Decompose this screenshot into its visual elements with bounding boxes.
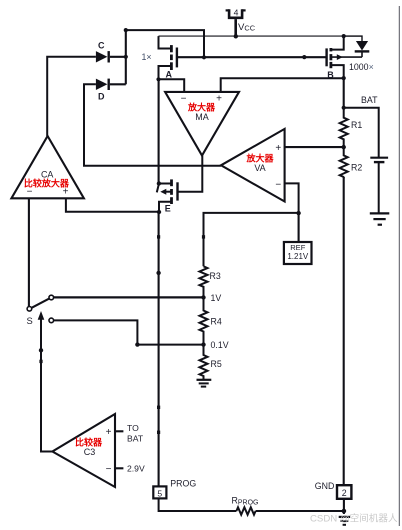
node: E drain dot xyxy=(157,181,161,185)
svg-text:−: − xyxy=(275,180,281,191)
svg-text:E: E xyxy=(165,203,171,213)
node: dot on actuator line xyxy=(39,348,43,352)
svg-text:1.21V: 1.21V xyxy=(287,252,309,261)
tick on PROG line mid xyxy=(157,406,160,409)
wire: RPROG to GND node xyxy=(256,510,344,512)
battery cell xyxy=(370,158,388,213)
svg-text:PROG: PROG xyxy=(170,478,196,488)
svg-text:GND: GND xyxy=(315,481,335,491)
wire: B net from MA+ to 1000x source xyxy=(221,78,344,92)
node: throw2 corner dot xyxy=(135,342,139,346)
node 0.1V dot xyxy=(201,342,205,346)
svg-text:A: A xyxy=(166,69,173,79)
svg-text:−: − xyxy=(106,464,112,475)
tick on R3 feed line xyxy=(202,235,205,238)
svg-text:R2: R2 xyxy=(351,162,362,172)
node A dot xyxy=(156,77,160,81)
wire: B down to BAT xyxy=(343,78,345,108)
switch throw 2 contact xyxy=(49,318,54,323)
svg-text:TO: TO xyxy=(127,423,139,433)
svg-text:CSDN @空间机器人: CSDN @空间机器人 xyxy=(310,513,398,525)
svg-text:R3: R3 xyxy=(210,271,221,281)
svg-text:C: C xyxy=(98,41,105,51)
diode D xyxy=(96,79,126,90)
wire: MA output to E gate xyxy=(178,156,203,192)
tick on actuator line xyxy=(39,360,42,363)
wire: REF node left to R3 top xyxy=(204,213,299,266)
diode body of 1000x xyxy=(344,36,370,57)
svg-text:−: − xyxy=(181,94,187,105)
wire: VA output to diode D anode xyxy=(84,84,221,166)
resistor R3 xyxy=(200,266,208,297)
svg-text:BAT: BAT xyxy=(127,434,144,444)
node: GND junction dot xyxy=(342,509,347,514)
wire: CA- down to switch pole xyxy=(28,198,30,306)
wire: diode OR vertical x=126 xyxy=(125,30,127,84)
svg-text:1V: 1V xyxy=(211,293,222,303)
wire: BAT to battery xyxy=(344,108,379,157)
wire: C3 output up to switch actuator xyxy=(41,319,52,451)
svg-text:1×: 1× xyxy=(142,52,152,62)
node: dot at (126,30) xyxy=(124,28,128,32)
node: REF junction dot xyxy=(296,211,300,215)
wire: R2 down to GND pin xyxy=(343,177,345,485)
comparator C3 xyxy=(52,414,115,487)
svg-text:0.1V: 0.1V xyxy=(211,340,229,350)
svg-text:1000×: 1000× xyxy=(349,62,374,72)
op-amp CA xyxy=(11,136,84,198)
svg-text:VCC: VCC xyxy=(238,22,256,33)
diode C xyxy=(96,51,126,62)
svg-text:−: − xyxy=(27,187,33,198)
resistor RPROG xyxy=(236,507,255,514)
svg-text:S: S xyxy=(27,315,33,326)
wire: divider tap to VA+ xyxy=(285,146,344,148)
svg-text:+: + xyxy=(106,427,112,438)
wire: PROG to RPROG resistor xyxy=(159,498,237,511)
resistor R1 xyxy=(340,108,348,147)
E MOSFET bulk arrowhead xyxy=(160,189,166,195)
node: lone dot on PROG line xyxy=(156,271,160,275)
node: VCC pin junction dot xyxy=(234,34,238,38)
wire: CA+ to node E xyxy=(66,198,159,212)
svg-text:REF: REF xyxy=(290,243,306,252)
switch throw 1 contact xyxy=(49,295,54,300)
transistor E MOSFET xyxy=(157,179,178,212)
wire: CA output up to diode C anode xyxy=(47,57,96,136)
op-amp MA xyxy=(165,92,239,156)
ground (R5) xyxy=(197,380,212,387)
wire: REF lead down xyxy=(298,213,300,241)
svg-text:4: 4 xyxy=(234,8,239,18)
wire: throw1 to 1V xyxy=(54,296,204,298)
svg-text:R5: R5 xyxy=(211,359,222,369)
ground (battery) xyxy=(370,213,390,224)
wire: vertical A down to E drain xyxy=(158,79,160,183)
node B dot xyxy=(342,76,346,80)
resistor R2 xyxy=(340,147,348,177)
svg-text:2: 2 xyxy=(342,488,347,498)
wire: A to MA- input xyxy=(159,79,185,92)
svg-text:+: + xyxy=(216,94,222,105)
op-amp VA xyxy=(221,129,285,202)
node: R1/R2 junction dot xyxy=(342,145,346,149)
switch lever xyxy=(32,299,50,308)
svg-text:D: D xyxy=(98,92,105,102)
svg-text:+: + xyxy=(275,143,281,154)
pin 2 GND box xyxy=(337,485,351,499)
pin 5 PROG box xyxy=(153,486,166,498)
wire: C3 + input stub xyxy=(115,430,123,432)
wire: VCC thin rail y=36 xyxy=(159,35,363,37)
tick on PROG line upper xyxy=(157,235,160,238)
svg-text:2.9V: 2.9V xyxy=(127,464,145,474)
ground (GND pin) xyxy=(339,517,350,525)
transistor Q 1x PMOS xyxy=(159,36,177,79)
node: diode C cathode junction dot xyxy=(124,55,128,59)
wire: VA- to REF node xyxy=(285,183,299,213)
svg-text:+: + xyxy=(63,187,69,198)
resistor R5 xyxy=(200,345,208,380)
tick on PROG line lower xyxy=(157,431,160,434)
svg-text:MA: MA xyxy=(195,112,209,122)
actuator arrowhead xyxy=(38,311,45,320)
wire: C3 - input stub xyxy=(115,467,123,469)
1000x bulk arrowhead xyxy=(337,54,343,60)
wire: GND pin lead down xyxy=(343,499,345,514)
node BAT dot xyxy=(342,106,346,110)
pin 4 VCC package symbol xyxy=(226,9,246,36)
node: 1000x drain at rail dot xyxy=(342,34,346,38)
svg-text:C3: C3 xyxy=(84,447,96,457)
svg-text:R4: R4 xyxy=(211,316,222,326)
node: gate bus dot right xyxy=(302,55,306,59)
page border right xyxy=(398,6,400,526)
resistor R4 xyxy=(200,297,208,344)
switch S pole contact xyxy=(27,307,32,312)
wire: throw2 to 0.1V xyxy=(54,320,204,344)
svg-text:5: 5 xyxy=(157,488,162,498)
wire: thick gate feed top (126,30)-(204,30)-(204,57) xyxy=(126,30,204,57)
node E dot xyxy=(157,210,161,214)
svg-text:BAT: BAT xyxy=(361,95,378,105)
wire: gate bus y=57.2 xyxy=(177,56,327,58)
node: gate bus dot left xyxy=(202,55,206,59)
svg-text:R1: R1 xyxy=(351,120,362,130)
node 1V dot xyxy=(201,295,205,299)
svg-text:B: B xyxy=(327,70,334,80)
wire: E down to PROG pin xyxy=(158,212,160,486)
REF 1.21V box xyxy=(284,242,312,264)
transistor Q 1000x PMOS xyxy=(327,36,362,78)
svg-text:VA: VA xyxy=(254,163,265,173)
